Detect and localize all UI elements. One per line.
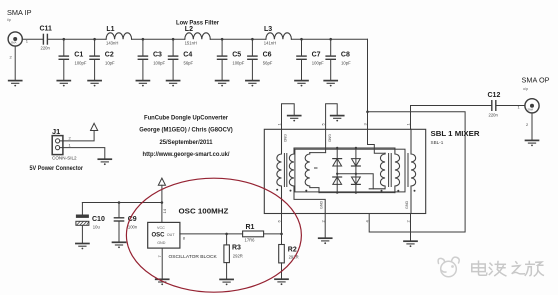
red highlight ellipse: [126, 178, 301, 292]
node R3: [225, 233, 228, 236]
wire IF return pin to ground: [410, 214, 412, 241]
node vcc2: [161, 201, 164, 204]
T3 core line: [407, 154, 409, 187]
transformer T3 IF winding: [411, 129, 416, 213]
svg-text:100n: 100n: [128, 225, 138, 230]
capacitor C7: [295, 39, 308, 86]
ground: [156, 279, 169, 285]
svg-text:10pF: 10pF: [341, 61, 351, 66]
wire SMA OP pin2 to ground: [531, 113, 533, 140]
node D: [172, 38, 175, 41]
phase dot a: [276, 189, 278, 191]
power +5V arrow: [158, 178, 165, 185]
svg-text:C5: C5: [232, 52, 241, 59]
svg-text:100pF: 100pF: [232, 61, 244, 66]
T1 core lines: [283, 154, 285, 187]
svg-text:C3: C3: [153, 52, 162, 59]
mixer inner box: [295, 149, 405, 192]
svg-text:220n: 220n: [41, 46, 51, 51]
capacitor C5: [216, 39, 229, 86]
T2 core lines: [388, 154, 390, 187]
phase dot b: [290, 190, 292, 192]
phase dot e: [397, 190, 399, 192]
capacitor C11: [43, 34, 47, 44]
svg-text:SMA OP: SMA OP: [522, 76, 550, 85]
ground: [288, 116, 301, 122]
phase dot c: [305, 190, 307, 192]
node RF: [366, 111, 369, 114]
power +5V arrow: [91, 123, 98, 130]
svg-text:292R: 292R: [233, 253, 243, 258]
watermark text zhi: [512, 262, 524, 274]
svg-text:OSCILLATOR BLOCK: OSCILLATOR BLOCK: [169, 254, 218, 259]
svg-text:SBL 1 MIXER: SBL 1 MIXER: [431, 129, 481, 138]
svg-text:14: 14: [162, 208, 167, 213]
node F: [251, 38, 254, 41]
ground: [220, 279, 233, 285]
svg-text:C2: C2: [105, 52, 114, 59]
SMA IP connector J? (SMA input): [8, 32, 22, 46]
resistor R2: [279, 245, 285, 279]
ground: [275, 279, 288, 285]
node A: [63, 38, 66, 41]
svg-text:J1: J1: [52, 127, 60, 136]
svg-text:L1: L1: [106, 26, 114, 33]
transformer T2 primary winding: [369, 153, 385, 189]
watermark logo: [438, 257, 459, 277]
transformer T1 primary winding: [277, 129, 282, 213]
wire GND pin 7 to ground: [161, 248, 163, 279]
node E: [221, 38, 224, 41]
wire R1 to LO node: [264, 233, 282, 235]
wire LPF output down to mixer RF node: [367, 39, 369, 129]
watermark text lv: [525, 262, 543, 277]
svg-text:C7: C7: [312, 52, 321, 59]
node brail1: [336, 191, 338, 193]
inductor L3: [266, 33, 292, 39]
svg-text:C11: C11: [40, 26, 53, 33]
svg-text:GND: GND: [320, 200, 324, 209]
svg-text:R3: R3: [232, 245, 241, 252]
wire L3 to corner: [291, 38, 367, 40]
wire J1 pin2 to +5V: [60, 131, 94, 141]
svg-text:C6: C6: [263, 52, 272, 59]
node LO: [280, 233, 283, 236]
node C: [142, 38, 145, 41]
wire bottom rail: [319, 192, 395, 194]
ground: [331, 116, 344, 122]
polarity dash: [315, 167, 318, 169]
svg-text:5V Power Connector: 5V Power Connector: [30, 165, 84, 172]
svg-text:L2: L2: [185, 26, 193, 33]
wire 5V rail to oscillator: [82, 202, 161, 204]
wire tertiary top to rail: [310, 152, 326, 154]
node H: [329, 38, 332, 41]
ground: [113, 242, 126, 248]
svg-text:10pF: 10pF: [105, 61, 115, 66]
ground: [526, 140, 539, 146]
phase dot f: [414, 190, 416, 192]
diode D4: [352, 174, 361, 193]
wire VCC pin 14: [161, 203, 163, 223]
wire pin 8 LO down to R2 node: [281, 214, 283, 245]
node rail2: [355, 147, 357, 149]
node rail1: [336, 147, 338, 149]
svg-text:220n: 220n: [489, 113, 499, 118]
svg-text:FunCube Dongle UpConverter: FunCube Dongle UpConverter: [144, 114, 228, 121]
transformer T1 secondary winding: [289, 148, 325, 214]
capacitor C1: [57, 39, 70, 86]
svg-text:100pF: 100pF: [312, 61, 324, 66]
wire J1 pin1 to ground: [60, 148, 105, 159]
wire pin 6 into rail: [325, 129, 327, 152]
node mrail1: [336, 173, 338, 175]
wire pin 3 staircase to T2 primary: [368, 129, 386, 153]
wire middle rail: [337, 174, 373, 189]
capacitor C3: [136, 39, 149, 86]
ground: [9, 81, 22, 87]
wire L1 to L2: [132, 38, 185, 40]
svg-text:OUT: OUT: [167, 233, 176, 237]
wire pin 2 to ground: [324, 214, 326, 238]
svg-text:OSC 100MHZ: OSC 100MHZ: [179, 206, 229, 215]
wire L2 to L3: [210, 38, 266, 40]
ground: [319, 238, 332, 244]
svg-text:Low Pass Filter: Low Pass Filter: [176, 20, 219, 27]
node mrail2: [355, 173, 357, 175]
svg-text:GND: GND: [327, 134, 331, 143]
resistor R1: [243, 231, 264, 237]
diode D2: [333, 174, 342, 193]
resistor R3: [224, 234, 230, 279]
svg-text:OSC: OSC: [152, 233, 166, 239]
capacitor C4: [167, 39, 180, 86]
svg-text:SBL-1: SBL-1: [431, 140, 444, 145]
phase dot d: [381, 190, 383, 192]
wire OUT pin 8 to R1: [180, 233, 243, 235]
svg-text:56pF: 56pF: [263, 61, 273, 66]
capacitor C12: [492, 101, 496, 111]
ground: [76, 244, 89, 250]
capacitor C6: [246, 39, 259, 86]
svg-text:151nH: 151nH: [185, 41, 197, 46]
connector J1: [52, 136, 63, 155]
svg-text:R1: R1: [246, 224, 255, 231]
SMA OP connector: [525, 99, 539, 113]
svg-text:L3: L3: [264, 26, 272, 33]
svg-text:o/p: o/p: [523, 87, 528, 91]
ground: [404, 241, 417, 247]
wire SMA pin2 to ground: [14, 46, 16, 80]
capacitor C8: [324, 39, 337, 86]
svg-text:SMA: SMA: [528, 107, 534, 111]
capacitor C10 electrolytic: [76, 203, 89, 244]
svg-text:141nH: 141nH: [264, 41, 276, 46]
wire C11 to L1: [48, 38, 106, 40]
svg-text:56pF: 56pF: [184, 61, 194, 66]
node vcc1: [118, 201, 121, 204]
wire mixer IF pin to C12: [411, 106, 492, 130]
wire RF branch right and down to pin 4: [368, 112, 466, 232]
wire pin 6 hook to ground: [326, 104, 338, 130]
diode D1: [333, 148, 342, 174]
wire C12 to SMA OP: [496, 105, 525, 107]
svg-text:George (M1GEO) / Chris (G8OCV): George (M1GEO) / Chris (G8OCV): [139, 127, 233, 134]
transformer T2 secondary winding: [395, 148, 400, 193]
node B: [93, 38, 96, 41]
svg-text:R2: R2: [288, 247, 297, 254]
svg-text:GND: GND: [157, 241, 166, 245]
mixer U1 SBL-1 outer body: [264, 129, 425, 213]
wire pin 5 hook to ground: [282, 104, 295, 130]
wire top rail: [294, 147, 395, 149]
svg-text:SMA: SMA: [11, 41, 17, 45]
node brail2: [355, 191, 357, 193]
svg-text:GND: GND: [405, 200, 409, 209]
svg-text:10u: 10u: [93, 225, 101, 230]
ground: [98, 159, 111, 165]
svg-text:C1: C1: [74, 52, 83, 59]
capacitor C2: [88, 39, 101, 86]
svg-text:i/p: i/p: [7, 18, 11, 22]
svg-text:C10: C10: [92, 216, 105, 223]
svg-text:CONN-SIL2: CONN-SIL2: [52, 156, 77, 161]
inductor L1: [106, 33, 132, 39]
svg-text:VCC: VCC: [157, 226, 165, 230]
diode D3: [352, 148, 361, 174]
wire +5V to rail: [161, 185, 163, 202]
svg-text:100pF: 100pF: [75, 61, 87, 66]
svg-text:C12: C12: [488, 92, 501, 99]
node G: [300, 38, 303, 41]
svg-text:25/September/2011: 25/September/2011: [160, 139, 213, 146]
capacitor C9: [114, 203, 123, 242]
oscillator U2 block: [148, 222, 180, 248]
svg-text:http://www.george-smart.co.uk/: http://www.george-smart.co.uk/: [143, 151, 230, 158]
svg-text:SMA IP: SMA IP: [7, 8, 32, 17]
wire SMA to C11: [22, 38, 43, 40]
svg-text:100pF: 100pF: [153, 61, 165, 66]
svg-text:C4: C4: [183, 52, 192, 59]
watermark text bo: [489, 262, 506, 276]
svg-text:GND: GND: [283, 134, 287, 143]
inductor L2: [185, 33, 211, 39]
transformer T1 tertiary winding: [305, 153, 319, 193]
svg-text:C8: C8: [341, 52, 350, 59]
svg-text:17R6: 17R6: [245, 237, 256, 242]
svg-text:143nH: 143nH: [106, 41, 118, 46]
watermark text dian: [472, 261, 487, 275]
